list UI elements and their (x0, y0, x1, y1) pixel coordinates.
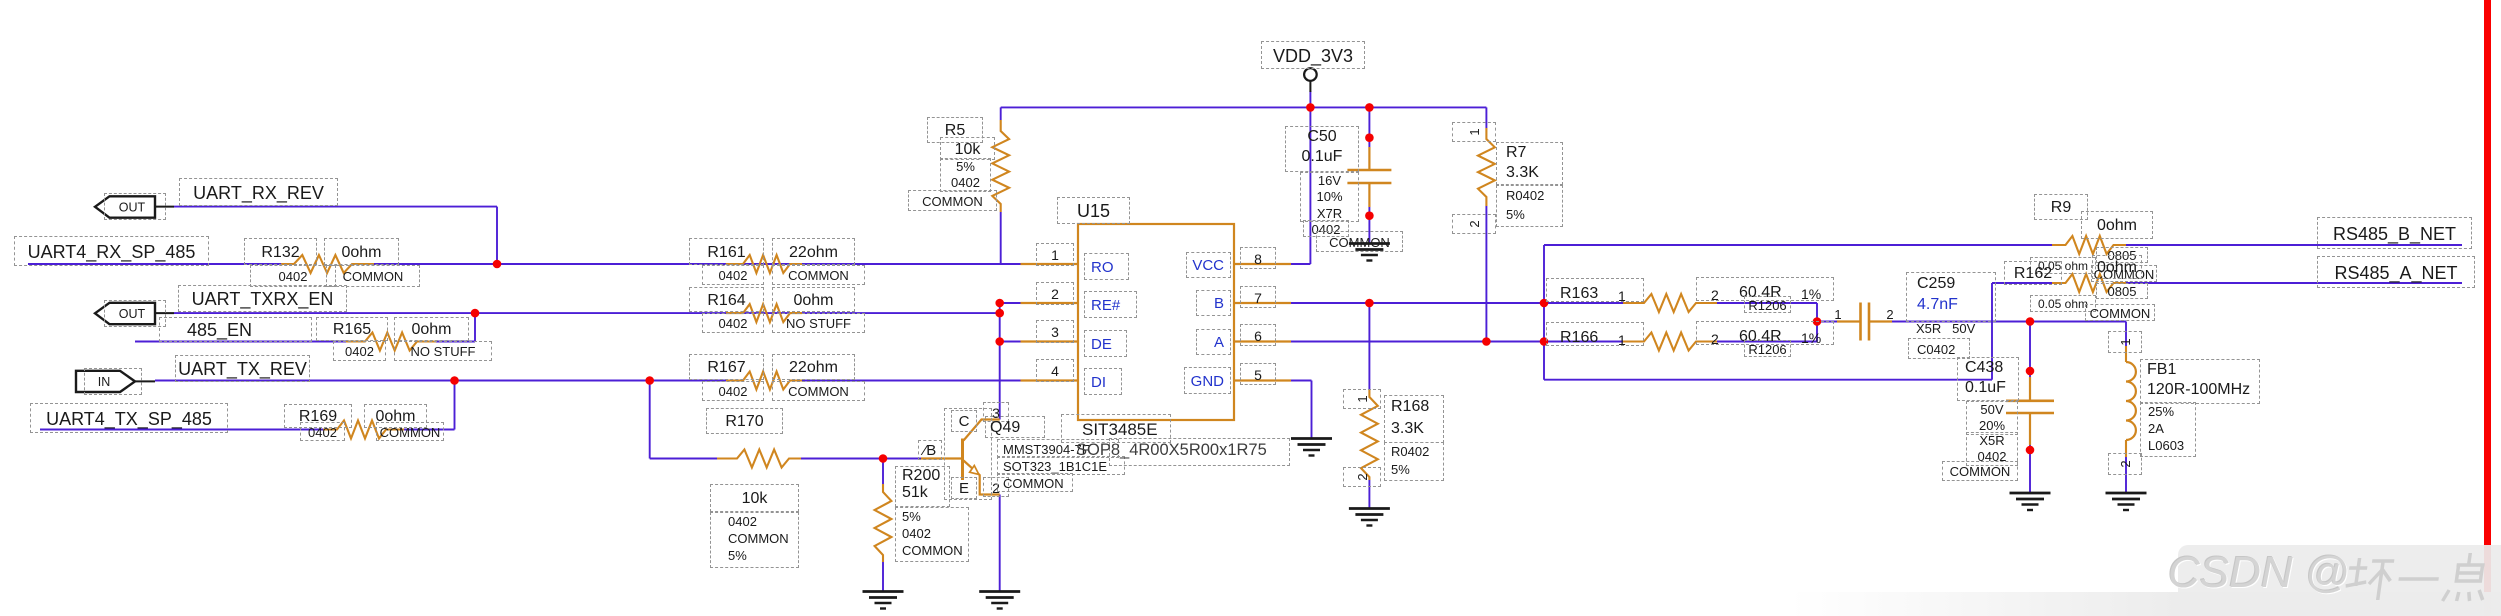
wire R168 top lead (1368, 303, 1370, 390)
resistor R165 (346, 333, 436, 351)
wire termination mid join (1816, 303, 1818, 342)
resistor R170 (717, 450, 801, 468)
resistor R161 (726, 255, 802, 273)
pin number 8 (1240, 247, 1276, 269)
resistor R7 pin2 (1452, 214, 1496, 234)
resistor R163 R1206 (1744, 296, 1791, 313)
capacitor C50 0402 (1303, 220, 1349, 237)
pin name A (1196, 329, 1231, 355)
transistor Q49 E label (951, 477, 977, 499)
wire FB1 bottom lead (2125, 457, 2127, 493)
pin number 6 (1240, 324, 1276, 346)
node Q49 base junction (879, 454, 888, 463)
node C438 pin1 (2026, 367, 2035, 376)
node TX_SP junction (450, 376, 459, 385)
capacitor C438 attrs2 (1966, 432, 2018, 466)
resistor R9 0.05ohm (2030, 257, 2096, 274)
resistor R132 0402 (250, 265, 336, 287)
wire R7 bottom to A net (1485, 206, 1487, 342)
pin number 3 (1036, 320, 1074, 343)
wire A loop bottom (1544, 379, 1992, 381)
wire R163 out (1717, 302, 1817, 304)
port box OUT1 (104, 193, 166, 220)
power label VDD_3V3 (1261, 41, 1365, 69)
resistor R5 value 10k (940, 137, 995, 160)
net label UART_TXRX_EN (178, 285, 347, 312)
resistor R7 (1478, 128, 1495, 206)
node TXRX_EN tie (995, 309, 1004, 318)
transistor Q49 footprint SOT323 (997, 456, 1125, 475)
resistor R5 (992, 120, 1009, 212)
ground under Q49 emitter (979, 592, 1020, 609)
inductor FB1 orange leads (2125, 346, 2127, 457)
resistor R162 (2052, 274, 2126, 292)
wire 485_EN right (436, 341, 475, 343)
inductor FB1 pin2 (2108, 453, 2142, 475)
resistor R165 NO STUFF (394, 341, 492, 361)
node B loop junction (1540, 299, 1549, 308)
op-amp U15 body (SIT3485E) (1078, 224, 1234, 420)
resistor R169 0402 (300, 422, 345, 441)
wire R170 branch drop (649, 381, 651, 459)
wire C438 top lead (2029, 322, 2031, 378)
wire R200 to ground (882, 562, 884, 592)
net label RS485_B_NET (2317, 217, 2472, 249)
resistor R7 refdes+value (1496, 142, 1563, 185)
wire R166 out (1717, 341, 1817, 343)
wire R5 top lead (1000, 107, 1002, 120)
resistor R7 pin1 (1452, 122, 1496, 142)
resistor R164 (726, 304, 802, 322)
resistor R5 refdes (927, 117, 983, 143)
transistor Q49 pin3 label (983, 402, 1009, 422)
power symbol VDD_3V3 (1304, 68, 1317, 92)
pin name RO (1084, 253, 1129, 280)
node R7-A junction (1482, 337, 1491, 346)
resistor R161 COMMON (772, 265, 865, 285)
wire UART_TXRX_EN (174, 312, 1000, 314)
node VDD bus junction (1306, 103, 1315, 112)
node UART_RX junction (493, 260, 502, 269)
wire UART4_TX_SP_485 left (40, 429, 323, 431)
resistor R170 refdes (706, 408, 783, 434)
wire base node (799, 458, 921, 460)
ground under R168 (1349, 509, 1390, 526)
wire UART4_RX_SP_485 left (28, 263, 281, 265)
ground under FB1 (2106, 493, 2147, 510)
transistor Q49 outline box (944, 408, 992, 500)
resistor R162 refdes (2004, 261, 2062, 285)
wire GND pin elbow (1290, 380, 1312, 382)
wire RS485_A net right (2126, 282, 2462, 284)
node C438 top junction (2026, 317, 2035, 326)
net label 485_EN (159, 317, 312, 342)
wire 485_EN riser (474, 313, 476, 341)
capacitor C50 (1347, 147, 1391, 207)
wire TX_SP riser (454, 381, 456, 430)
transistor Q49 body (963, 420, 1000, 495)
wire A loop riser (1991, 283, 1993, 380)
wire RS485_B net left (1544, 244, 2052, 246)
wire UART_RX_REV horizontal (174, 206, 497, 208)
transistor Q49 B label (918, 440, 942, 460)
resistor R168 attrs (1384, 442, 1444, 481)
resistor R166 refdes (1546, 322, 1644, 346)
wire VDD symbol drop (1309, 91, 1311, 107)
pin name RE# (1084, 291, 1137, 318)
wire A net from pin 6 (1290, 341, 1623, 343)
wire RS485_A net left (1992, 282, 2052, 284)
resistor R5 attrs (940, 158, 991, 192)
wire R7 top lead (1485, 107, 1487, 128)
pin number 2 (1036, 282, 1074, 305)
port OUT (UART_RX_REV) (95, 196, 174, 217)
resistor R165 value 0ohm (394, 317, 469, 341)
resistor R161 0402 (702, 265, 764, 285)
watermark glyphs (hand-drawn CJK) (2340, 548, 2501, 612)
wire DE stub (1000, 341, 1022, 343)
wire B net from pin 7 (1290, 302, 1623, 304)
resistor R165 refdes (316, 317, 388, 341)
pin number 1 (1036, 243, 1074, 266)
transistor Q49 refdes (985, 416, 1045, 438)
capacitor C259 C0402 (1908, 338, 1970, 359)
net label UART4_RX_SP_485 (14, 236, 209, 266)
capacitor C438 COMMON (1942, 461, 2018, 481)
wire VCC riser (1309, 107, 1311, 264)
capacitor C259 (1837, 303, 1892, 341)
capacitor C438 (2006, 377, 2054, 445)
wire VDD top bus (1001, 106, 1487, 108)
resistor R170 attrs (710, 512, 799, 568)
pin name VCC (1186, 252, 1231, 278)
resistor R168 pin2 (1343, 467, 1381, 487)
inductor FB1 (2126, 362, 2136, 440)
resistor R162 COMMON (2085, 304, 2155, 321)
resistor R162 value 0ohm (2092, 255, 2142, 279)
wire C50 top lead (1368, 107, 1370, 147)
pin 2 RE# stub (1021, 302, 1079, 304)
resistor R167 0402 (702, 381, 764, 401)
resistor R163 value (1696, 277, 1834, 301)
wire B/A loop left edge (1543, 245, 1545, 380)
wire RE# stub (1000, 302, 1022, 304)
wire FB1 top lead (2125, 322, 2127, 347)
wire C50 bottom lead (1368, 207, 1370, 244)
resistor R167 (726, 372, 802, 390)
resistor R165 0402 (333, 341, 386, 361)
watermark text CSDN (2168, 548, 2368, 608)
transistor Q49 part MMST3904-7F (997, 439, 1119, 458)
resistor R132 COMMON (326, 265, 420, 287)
node C50 pin2 (1365, 211, 1374, 220)
transistor Q49 pin2 label (983, 477, 1009, 497)
pin name DE (1084, 330, 1127, 357)
inductor FB1 attrs (2140, 402, 2196, 457)
wire R168 to ground (1368, 480, 1370, 509)
resistor R162 0805 (2096, 283, 2148, 299)
resistor R164 NO STUFF (772, 313, 865, 333)
transistor Q2 base lead (921, 457, 961, 459)
resistor R164 value 0ohm (772, 287, 855, 312)
pin name B (1196, 290, 1231, 316)
pin number 5 (1240, 363, 1276, 385)
capacitor C259 attrs X5R 50V (1906, 318, 2016, 339)
capacitor C259 pin2 (1883, 306, 1897, 323)
resistor R169 COMMON (376, 422, 444, 441)
chip footprint SOP8 (1076, 440, 1276, 460)
ground under R200 (863, 592, 904, 609)
resistor R9 (2052, 236, 2126, 254)
pin name DI (1084, 368, 1122, 395)
resistor R163 refdes (1546, 278, 1644, 302)
capacitor C50 attrs (1300, 172, 1359, 222)
resistor R164 0402 (702, 313, 764, 333)
wire C438 bottom lead (2029, 445, 2031, 493)
resistor R162 0.05ohm (2030, 295, 2096, 312)
pin number 4 (1036, 359, 1074, 382)
transistor Q49 C label (951, 410, 977, 432)
wire C259 left (1817, 321, 1837, 323)
node C438 pin2 (2026, 446, 2035, 455)
resistor R166 value (1696, 321, 1834, 345)
pin name GND (1184, 367, 1231, 394)
capacitor C50 COMMON (1316, 231, 1403, 252)
resistor R167 COMMON (772, 381, 865, 401)
chip value SIT3485E (1061, 414, 1171, 443)
capacitor C438 refdes+value (1957, 357, 2019, 401)
wire GND pin drop (1311, 381, 1313, 439)
ground under C438 (2010, 493, 2051, 510)
chip footprint SOP8 box (1109, 438, 1290, 466)
net label UART4_TX_SP_485 (30, 403, 228, 433)
resistor R200 refdes+value (895, 466, 950, 507)
transistor Q49 COMMON (997, 473, 1073, 492)
resistor R9 refdes (2034, 194, 2088, 220)
wire Q49 emitter to ground (999, 495, 1001, 592)
resistor R161 refdes (689, 238, 764, 265)
node A loop junction (1540, 337, 1549, 346)
capacitor C50 refdes+value (1285, 126, 1359, 172)
watermark background band low (1790, 592, 2501, 616)
pin 5 GND stub (1234, 379, 1291, 381)
wire UART_RX_REV drop (496, 207, 498, 264)
wire RS485_B net right (2126, 244, 2462, 246)
resistor R161 value 22ohm (772, 238, 855, 265)
wire VCC elbow (1290, 263, 1310, 265)
wire TX net to chip DI (802, 380, 1022, 382)
wire R5 bottom to RO net (1000, 212, 1002, 264)
net label UART_RX_REV (179, 178, 338, 206)
pin 1 RO stub (1021, 263, 1079, 265)
resistor R9 value 0ohm (2081, 211, 2153, 239)
capacitor C438 attrs1 (1966, 401, 2018, 435)
resistor R132 value 0ohm (324, 238, 399, 265)
inductor FB1 refdes+value (2140, 359, 2260, 404)
pin 3 DE stub (1021, 340, 1079, 342)
resistor R132 refdes (244, 238, 317, 265)
ground under U15 GND pin (1291, 439, 1332, 456)
wire R200 top lead (882, 459, 884, 485)
resistor R169 refdes (284, 404, 352, 428)
wire Q49 collector riser (999, 303, 1001, 420)
node C50 bus junction (1365, 103, 1374, 112)
resistor R164 refdes (689, 287, 764, 312)
pin 7 B stub (1234, 302, 1291, 304)
ground under C50 (1349, 244, 1390, 261)
resistor R169 value 0ohm (364, 404, 427, 428)
resistor R167 value 22ohm (772, 354, 855, 380)
resistor R168 (1361, 390, 1378, 480)
watermark background band high (2178, 545, 2501, 616)
resistor R167 refdes (689, 354, 764, 380)
capacitor C259 refdes+value (1906, 272, 1996, 322)
wire TX_SP right (404, 429, 455, 431)
port box OUT2 (104, 300, 166, 327)
node termination mid (1813, 317, 1822, 326)
inductor FB1 pin1 (2108, 331, 2142, 353)
node RE# tie (995, 299, 1004, 308)
resistor R200 (875, 484, 892, 562)
resistor R200 attrs (895, 507, 969, 562)
resistor R168 pin1 (1343, 389, 1381, 409)
resistor R9 0805 (2096, 247, 2148, 263)
port box IN (84, 368, 142, 395)
resistor R170 value 10k (710, 484, 799, 512)
wire 485_EN left (135, 341, 346, 343)
port OUT (UART_TXRX_EN) (95, 303, 174, 324)
net label UART_TX_REV (175, 355, 310, 382)
resistor R9 COMMON (2091, 265, 2157, 282)
wire C259 right to FB1 (1892, 321, 2126, 323)
node DE tie (995, 337, 1004, 346)
pin 4 DI stub (1021, 379, 1079, 381)
node B-R168 junction (1365, 299, 1374, 308)
resistor R132 (281, 255, 374, 273)
chip U15 refdes (1057, 197, 1130, 224)
resistor R166 (1623, 333, 1717, 351)
node 485_EN junction (471, 309, 480, 318)
resistor R169 (323, 421, 404, 439)
resistor R163 (1623, 294, 1717, 312)
pin number 7 (1240, 286, 1276, 308)
resistor R168 refdes+value (1384, 395, 1444, 443)
red margin bar (2484, 0, 2491, 616)
wire R170 branch left (650, 458, 717, 460)
pin 6 A stub (1234, 340, 1291, 342)
node C50 pin1 (1365, 133, 1374, 142)
port IN (UART_TX_REV) (76, 371, 155, 392)
capacitor C259 pin1 (1831, 306, 1845, 323)
resistor R5 COMMON (908, 190, 997, 211)
resistor R7 attrs (1496, 185, 1563, 227)
node R170 branch junction (645, 376, 654, 385)
wire RX net to chip RO (374, 263, 1022, 265)
pin 8 VCC stub (1234, 263, 1291, 265)
wire UART_TX_REV (155, 380, 726, 382)
resistor R166 R1206 (1744, 340, 1791, 357)
net label RS485_A_NET (2317, 256, 2475, 288)
